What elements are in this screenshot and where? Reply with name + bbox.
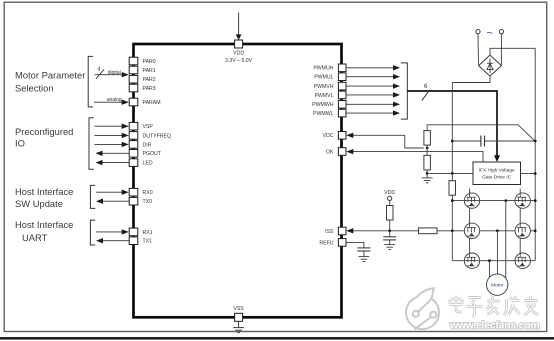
node ISS sense rail crossing [451,229,454,232]
svg-text:TX0: TX0 [143,199,153,205]
pin VSP [129,122,153,130]
svg-text:VDD: VDD [384,190,395,196]
pin LED [129,159,153,167]
watermark logo [406,288,439,329]
wire motor phase W [488,261,490,278]
svg-text:DIR: DIR [143,142,152,148]
svg-text:PWMWH: PWMWH [312,102,334,108]
svg-text:ISS: ISS [325,229,334,235]
svg-text:PARAM: PARAM [143,100,161,106]
motor M1 [487,274,508,295]
VDD supply arrow [236,13,242,41]
pin PWMUH [313,64,346,72]
svg-text:Motor Parameter: Motor Parameter [15,70,85,81]
AC terminal right [499,30,503,34]
pin PWMWH [312,101,346,109]
pin RX0 [129,188,153,196]
svg-text:4: 4 [98,67,101,73]
svg-text:PAR1: PAR1 [143,68,156,74]
pin PWMVL [314,91,346,99]
AC terminal left [476,30,480,34]
text Host Interface SW Update [15,186,73,209]
pin PAR3 [129,84,156,92]
svg-text:RX0: RX0 [143,190,153,196]
svg-text:digital: digital [108,70,121,76]
svg-text:Host Interface: Host Interface [15,219,73,230]
resistor R4 pullup [387,206,394,237]
wire motor phase V [496,231,498,274]
svg-text:VSS: VSS [233,306,244,312]
pin DUTYFREQ [129,132,171,140]
wire phase row V [496,229,537,232]
svg-text:SW Update: SW Update [15,198,63,209]
svg-text:PWMUH: PWMUH [313,66,333,72]
svg-text:UART: UART [22,232,48,243]
PWM bus wire with 6 slash [407,83,500,162]
capacitor C1 DC bus [452,136,535,147]
resistor R5 sense series [419,228,536,234]
VDD pullup label [384,190,395,196]
IC gate driver U2 [473,162,521,185]
svg-text:RX1: RX1 [143,230,153,236]
svg-text:~: ~ [486,28,492,40]
resistor R1 (upper divider) [424,125,535,145]
pin VSS [233,306,244,321]
wire bridge DC- to left rail [452,76,490,181]
arrow into DUTYFREQ [95,133,129,138]
svg-text:VSP: VSP [143,124,154,130]
watermark url text [449,321,539,332]
pin OK [326,148,346,156]
bracket motor parameter group [88,56,93,107]
watermark chinese text inner highlight [450,296,539,317]
svg-text:VDD: VDD [233,51,244,57]
ground at VSS [233,321,244,332]
node ground wire junction [426,172,429,175]
svg-text:PAR0: PAR0 [143,59,156,65]
pin PWMUL [314,73,346,81]
svg-text:PWMVH: PWMVH [314,84,334,90]
ground at REFU cap [359,257,370,262]
svg-text:www.elecfans.com: www.elecfans.com [449,321,539,332]
symbol Q4 internals [517,223,526,236]
arrow PWMUH [346,65,400,70]
arrow PWMWL [346,110,400,115]
arrow out of LED [96,160,130,165]
wire phase row W [452,259,535,262]
wire ground to gate driver [427,172,473,175]
svg-text:PWMVL: PWMVL [314,93,333,99]
pin DIR [129,141,151,149]
watermark chinese text [450,296,539,317]
wire column links row2-row3 [470,238,521,253]
resistor R3 on left rail [449,181,456,261]
digital bus arrow with 4 slash [95,67,129,79]
pin PWMVH [314,82,346,90]
transistor Q4 (low side V) [515,223,530,238]
svg-text:6: 6 [424,83,428,90]
transistor Q1 (high side U) [464,193,479,208]
svg-text:IO: IO [15,138,25,149]
text Host Interface UART [15,219,73,243]
bridge rectifier D1 [479,55,502,76]
svg-text:REFU: REFU [319,240,333,246]
pin PARAM [129,98,160,106]
transistor Q2 (low side U) [515,193,530,208]
arrow PWMUL [346,74,400,79]
arrow out of PGOUT [96,151,130,156]
node DC bus cap right [534,140,537,143]
pin PAR1 [129,66,156,74]
wire gate driver to right rail [521,172,537,175]
resistor R2 (lower divider) [424,155,431,177]
capacitor C3 at ISS [383,237,396,245]
analog arrow [94,97,129,105]
svg-text:Motor: Motor [491,283,504,289]
arrow out of TX1 [96,238,129,243]
VDD pullup terminal [388,196,392,205]
svg-text:PAR2: PAR2 [143,77,156,83]
svg-text:Selection: Selection [15,83,54,94]
arrow into RX1 [96,229,129,234]
pin PAR0 [129,57,156,65]
arrow out of TX0 [96,199,129,204]
symbol Q1 internals [467,193,476,206]
symbol Q5 internals [467,253,476,266]
symbol Q6 internals [517,253,526,266]
AC tilde label [486,28,492,40]
wire ISS sense [346,228,418,233]
pin VDD [235,40,243,48]
svg-text:TX1: TX1 [143,239,153,245]
svg-text:analog: analog [107,97,122,103]
wire drain stubs top row [470,189,521,194]
svg-text:3.3V – 5.0V: 3.3V – 5.0V [225,58,253,64]
text Preconfigured IO [15,126,73,148]
wire VDC to divider [346,133,424,148]
pin ISS [325,227,346,235]
IC U1 (motor controller block) [134,44,342,317]
arrow PWMWH [346,102,400,107]
transistor Q6 (low side W) [515,253,530,268]
label VDD [225,51,253,65]
node VDC divider junction [426,145,429,155]
svg-text:Preconfigured: Preconfigured [15,126,73,137]
pin TX0 [129,197,152,205]
symbol Q2 internals [517,193,526,206]
pin TX1 [129,237,152,245]
right DC rail [534,48,536,260]
wire bridge DC+ to right rail [490,48,535,55]
svg-text:PWMUL: PWMUL [314,75,333,81]
transistor Q3 (high side V) [464,223,479,238]
symbol Q3 internals [467,223,476,236]
svg-text:IFX High Voltage: IFX High Voltage [479,168,515,174]
svg-text:OK: OK [326,149,334,155]
pin PGOUT [129,150,162,158]
pin REFU [319,239,346,247]
node DC bus cap left [451,140,454,143]
bracket host interface SW update group [90,185,95,208]
arrow into RX0 [96,190,129,195]
text Motor Parameter Selection [15,70,85,94]
arrow PWMVL [346,92,400,97]
svg-text:Gate Drive IC: Gate Drive IC [482,175,512,181]
wire AC left to bridge [477,34,480,65]
pin PAR2 [129,75,156,83]
arrow PWMVH [346,83,400,88]
svg-text:LED: LED [143,161,153,167]
bottom black bar [0,337,554,340]
svg-text:Host Interface: Host Interface [15,186,73,197]
svg-text:PGOUT: PGOUT [143,151,162,157]
wire OK to gate driver [346,149,483,162]
ground at divider [422,178,433,183]
arrow into DIR [95,142,129,147]
pin PWMWL [313,109,346,117]
bracket PWM bus [401,63,408,119]
svg-text:PWMWL: PWMWL [313,111,334,117]
bracket host interface UART group [90,220,95,245]
wire column links row1-row2 [470,208,521,223]
wire REFU to cap [346,242,364,248]
svg-text:PAR3: PAR3 [143,86,156,92]
wire AC right to bridge [500,34,502,65]
svg-text:VDC: VDC [323,133,334,139]
bracket preconfigured IO group [89,118,94,170]
pin VDC [323,132,346,140]
transistor Q5 (high side W) [464,253,479,268]
arrow into VSP [95,124,129,129]
wire phase row U [451,199,537,202]
pin RX1 [129,228,153,236]
wire motor phase U [505,201,507,278]
capacitor C2 at REFU [357,248,370,257]
ground at ISS cap [384,245,395,250]
svg-text:DUTYFREQ: DUTYFREQ [143,133,172,139]
